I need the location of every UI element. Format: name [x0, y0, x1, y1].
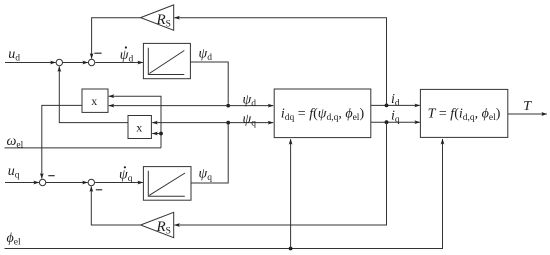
wire S3 to summing node S4: [46, 182, 88, 184]
wire psi_d feedback into multiplier M1: [109, 105, 228, 107]
svg-text:ud: ud: [8, 47, 20, 64]
wire S1 to summing node S2: [63, 62, 88, 64]
node psidot_q label: [119, 166, 133, 184]
svg-text:ψd: ψd: [120, 48, 134, 65]
node T label: [523, 99, 532, 114]
A2 Rs label: [156, 219, 171, 237]
node uq input label: [8, 164, 20, 181]
minus sign at S3: [48, 175, 54, 177]
junction dot omega branch: [159, 132, 163, 136]
svg-text:ϕel: ϕel: [7, 231, 21, 248]
multiplier M2 box: [128, 116, 151, 139]
svg-text:ψd: ψd: [199, 47, 213, 64]
wire M2 output to summing node S1: [59, 67, 128, 123]
junction dot psi_d node: [226, 104, 230, 108]
integrator I1 (d-axis) box: [143, 43, 190, 78]
junction dot i_d node: [385, 104, 389, 108]
wire omega branch into M2: [152, 133, 161, 135]
svg-text:ψd: ψd: [243, 93, 257, 110]
block F1 i_dq = f(psi_dq, phi_el): [274, 89, 371, 138]
wire M1 output to summing node S3: [42, 105, 82, 178]
wire psi_d into block F1: [228, 105, 273, 107]
node psi_q label (before F1): [243, 112, 257, 129]
node psidot_d label: [120, 46, 134, 64]
wire uq input to summing node S3: [5, 182, 39, 184]
wire phi_el branch up into F1: [290, 139, 292, 248]
node i_q label: [391, 109, 400, 126]
A1 Rs label: [156, 12, 171, 30]
minus sign at S2: [94, 52, 101, 54]
wire A1 output to S2: [92, 18, 141, 59]
svg-text:T: T: [523, 99, 532, 114]
wire i_d feedback up to amplifier A1: [174, 18, 386, 106]
wire I1 output psi_d to corner: [190, 62, 228, 104]
svg-text:uq: uq: [8, 164, 20, 181]
amplifier A1 (Rs, top) triangle: [141, 5, 174, 30]
M2 x label: [136, 121, 142, 135]
amplifier A2 (Rs, bottom) triangle: [141, 212, 174, 237]
F2 formula label: [428, 107, 501, 124]
wire S4 to integrator I2, label psidot_q: [95, 182, 143, 184]
svg-text:x: x: [136, 121, 142, 135]
svg-text:idq = f(ψd,q, ϕel): idq = f(ψd,q, ϕel): [281, 107, 365, 124]
wire i_q from F1 to block F2: [371, 121, 420, 123]
summing node S1 (d-axis, +wpsi_q): [56, 59, 62, 65]
junction dot i_q node: [385, 120, 389, 124]
F1 formula label: [281, 107, 365, 124]
node omega_el label: [7, 134, 24, 151]
wire omega into M1: [109, 96, 161, 148]
integrator I2 (q-axis) box: [143, 167, 191, 201]
wire psi_q into block F1: [228, 122, 273, 124]
svg-text:id: id: [391, 92, 400, 109]
node psi_d label (before F1): [243, 93, 257, 110]
wire A2 output to S4: [91, 187, 140, 226]
wire ud input to summing node S1: [5, 62, 56, 64]
integrator I1 axis symbol: [148, 48, 184, 75]
junction dot psi_q node: [226, 121, 230, 125]
wire S2 to integrator I1, label psidot_d: [95, 62, 142, 64]
integrator I2 ramp line: [149, 173, 185, 195]
svg-text:ψq: ψq: [199, 167, 213, 184]
wire I2 output psi_q to corner: [191, 125, 228, 184]
summing node S4 (q-axis, -Rs iq): [88, 179, 94, 185]
node i_d label: [391, 92, 400, 109]
minus sign at S4: [96, 189, 102, 191]
svg-text:iq: iq: [391, 109, 400, 126]
wire omega_el input: [5, 147, 162, 149]
multiplier M1 box: [82, 89, 108, 112]
wire i_q feedback down to amplifier A2: [174, 122, 386, 225]
block F2 T = f(i_dq, phi_el): [420, 89, 507, 137]
M1 x label: [91, 94, 97, 108]
wire i_d from F1 to block F2: [371, 104, 420, 106]
wire phi_el input to F2: [5, 139, 443, 249]
node psi_d label (after I1): [199, 47, 213, 64]
integrator I1 ramp line: [149, 51, 184, 74]
svg-text:ψq: ψq: [243, 112, 257, 129]
node psi_q label (after I2): [199, 167, 213, 184]
node ud input label: [8, 47, 20, 64]
integrator I2 axis symbol: [148, 171, 185, 197]
summing node S3 (q-axis, -wpsi_d): [39, 179, 45, 185]
svg-text:x: x: [91, 94, 97, 108]
wire psi_q feedback into multiplier M2: [152, 122, 228, 124]
node phi_el label: [7, 231, 21, 248]
wire T output: [508, 113, 547, 115]
svg-text:ψq: ψq: [119, 168, 133, 185]
junction dot phi_el branch: [289, 247, 293, 251]
summing node S2 (d-axis, -Rs id): [88, 59, 94, 65]
